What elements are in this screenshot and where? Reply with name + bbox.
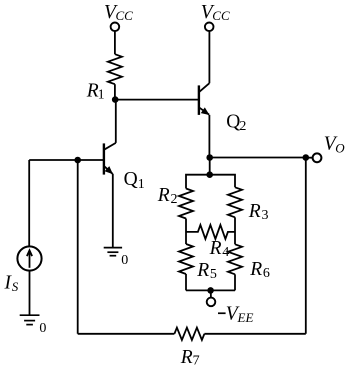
wire bottom rail left — [78, 333, 175, 335]
ground 0 (below Q1) — [104, 248, 122, 256]
wire Q2 emitter down to node C — [208, 115, 210, 158]
wire node C to node D — [210, 157, 306, 159]
svg-text:1: 1 — [98, 87, 105, 102]
resistor R7 — [174, 328, 204, 340]
node C junction dot — [206, 154, 213, 161]
svg-text:R: R — [209, 238, 222, 259]
output terminal VO — [313, 153, 322, 162]
svg-text:CC: CC — [116, 8, 134, 23]
wire IS to ground — [29, 271, 31, 316]
current source IS — [17, 246, 41, 270]
power terminal -VEE — [207, 298, 216, 307]
power terminal VCC (left) — [111, 23, 120, 32]
transistor Q1 — [104, 143, 116, 175]
resistor R2 — [179, 189, 193, 219]
svg-text:2: 2 — [239, 119, 246, 134]
resistor R6 — [228, 244, 242, 274]
node E junction dot — [206, 171, 213, 178]
wire Q1 emitter to ground — [112, 174, 114, 248]
wire IS top — [28, 160, 30, 247]
wire left rail lower — [185, 274, 187, 290]
wire bottom rail right — [204, 333, 305, 335]
node F junction dot — [207, 287, 214, 294]
svg-text:5: 5 — [210, 267, 217, 282]
node D junction dot — [303, 154, 310, 161]
wire right rail lower — [234, 274, 236, 290]
wire right rail middle — [234, 217, 236, 244]
svg-text:7: 7 — [193, 354, 200, 368]
svg-text:EE: EE — [237, 310, 254, 325]
resistor R4 — [186, 225, 235, 239]
resistor R3 — [228, 187, 242, 217]
transistor Q2 — [199, 83, 210, 115]
svg-text:O: O — [335, 140, 345, 155]
svg-text:0: 0 — [39, 321, 46, 336]
svg-text:Q: Q — [124, 169, 138, 190]
label -VEE — [218, 312, 226, 314]
svg-text:S: S — [12, 279, 19, 294]
svg-text:R: R — [249, 259, 262, 280]
svg-text:R: R — [196, 260, 209, 281]
wire ladder top rail — [186, 175, 235, 189]
node B junction dot — [74, 157, 81, 164]
svg-text:R: R — [180, 347, 193, 368]
wire node D to VO terminal — [306, 157, 313, 159]
svg-text:6: 6 — [263, 266, 270, 281]
power terminal VCC (right) — [205, 23, 214, 32]
wire node F to VEE terminal — [210, 290, 212, 297]
wire left rail middle — [185, 219, 187, 245]
svg-text:3: 3 — [262, 208, 269, 223]
svg-text:0: 0 — [121, 253, 128, 268]
wire node A to Q2 base — [115, 99, 199, 101]
node A junction dot — [112, 96, 119, 103]
svg-text:CC: CC — [212, 8, 230, 23]
wire node B down to bottom rail — [77, 160, 79, 334]
wire R1 to node A — [114, 84, 116, 99]
svg-text:4: 4 — [222, 245, 229, 260]
resistor R5 — [179, 244, 193, 274]
wire node D down to bottom rail — [305, 158, 307, 334]
wire Q1 collector to node A — [115, 100, 117, 143]
svg-text:Q: Q — [226, 111, 240, 132]
wire Q2 collector to VCC — [208, 31, 210, 83]
ground 0 (below IS) — [20, 315, 40, 324]
wire ladder bottom rail — [186, 289, 235, 291]
svg-text:2: 2 — [171, 192, 178, 207]
wire base rail: IS corner to Q1 base — [29, 159, 103, 161]
wire node C down to node E — [209, 158, 211, 175]
svg-text:R: R — [157, 185, 170, 206]
svg-text:1: 1 — [138, 177, 145, 192]
resistor R1 — [108, 54, 122, 84]
wire VCC-left to R1 — [114, 31, 116, 54]
svg-text:R: R — [248, 201, 261, 222]
